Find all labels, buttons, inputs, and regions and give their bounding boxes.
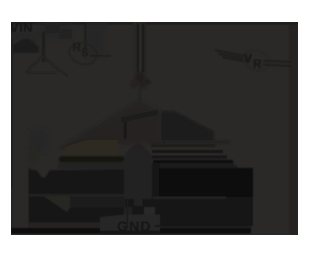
- vertical wire bundle halo: [133, 22, 146, 72]
- pin foot right: [143, 199, 153, 207]
- ellipse annotation around VR: [241, 47, 272, 74]
- dark wedge right of VIN: [58, 29, 72, 39]
- wire pair to right edge: [263, 61, 291, 62]
- roof wire left: [26, 56, 68, 76]
- vertical wire bundle line 2: [140, 23, 142, 72]
- stacked rail lines: [151, 145, 216, 148]
- bottom black line: [11, 228, 251, 234]
- left mass vertical edge line: [29, 168, 31, 233]
- diode D1 triangle: [120, 141, 156, 161]
- dark strip between arrow and block: [152, 163, 160, 207]
- wire horizontal y73: [26, 72, 56, 74]
- schematic canvas background: [11, 22, 298, 235]
- band under mound: [152, 140, 230, 144]
- band under rail left: [58, 162, 124, 170]
- fan wire 2: [219, 54, 248, 60]
- svg-text:8: 8: [82, 46, 89, 60]
- dark wedge center: [161, 111, 214, 141]
- pure black core: [162, 170, 251, 196]
- soft tent wedge left of mound: [58, 101, 161, 149]
- diode D1 cathode bar: [121, 110, 158, 123]
- tent left edge line: [62, 102, 139, 148]
- wire stub under VIN: [11, 33, 36, 39]
- soft shadow column right of R8 wire: [86, 22, 105, 57]
- wire below circle: [139, 88, 141, 124]
- PCB olive block: [65, 139, 118, 155]
- rail underfill: [153, 163, 243, 172]
- svg-text:GND: GND: [117, 218, 152, 234]
- wire from R8 to center: [90, 55, 111, 57]
- arrow into circle: [146, 79, 151, 84]
- svg-text:R: R: [73, 41, 82, 55]
- ground stub: [132, 206, 144, 216]
- ellipse annotation around R8: [67, 40, 99, 68]
- circle foot left: [131, 82, 136, 87]
- fan wire 3: [223, 57, 249, 62]
- medium blob above notch: [28, 150, 39, 166]
- gray wedge pocket: [44, 197, 70, 212]
- thin wire left of GND: [127, 200, 129, 228]
- black block big (inductor body): [159, 168, 253, 207]
- soft vertical shadow band left: [29, 130, 47, 152]
- thin line under GND: [100, 231, 160, 235]
- svg-text:V: V: [244, 52, 252, 66]
- soft shadow band under top edge: [35, 25, 72, 39]
- canvas right shaded band: [289, 22, 298, 235]
- thick rail wire: [59, 156, 124, 162]
- vertical wire above R8: [84, 22, 86, 48]
- vertical wire bundle line 1: [137, 23, 140, 72]
- svg-text:R: R: [253, 57, 262, 71]
- canvas left border: [10, 22, 13, 188]
- middle gap column: [124, 160, 152, 207]
- big black mass upper left-bottom: [29, 170, 125, 195]
- lower black band left: [29, 197, 124, 223]
- olive top edge line: [65, 139, 118, 146]
- fan wire 1 top right: [215, 50, 247, 56]
- bottom band mid: [124, 207, 132, 216]
- circle foot right: [140, 83, 146, 88]
- black edge line: [124, 122, 127, 139]
- block lower part: [155, 197, 253, 226]
- gray gap band above bottom line: [29, 223, 160, 229]
- pin foot left: [125, 199, 134, 207]
- capacitor block edge: [105, 123, 124, 140]
- dark block right of VIN: [45, 22, 60, 33]
- seam line in mass: [29, 194, 124, 197]
- stacked bottom lines under block: [155, 225, 251, 227]
- svg-text:VIN: VIN: [10, 20, 33, 35]
- canvas top border band: [11, 22, 298, 25]
- dark band between seam and lower mass: [70, 197, 124, 208]
- GND pocket: [100, 215, 160, 231]
- seam in big block: [153, 197, 226, 200]
- arrow on VIN wire: [13, 39, 39, 53]
- current source U1 circle: [134, 72, 145, 83]
- wire vertical from VIN arrow: [42, 32, 45, 62]
